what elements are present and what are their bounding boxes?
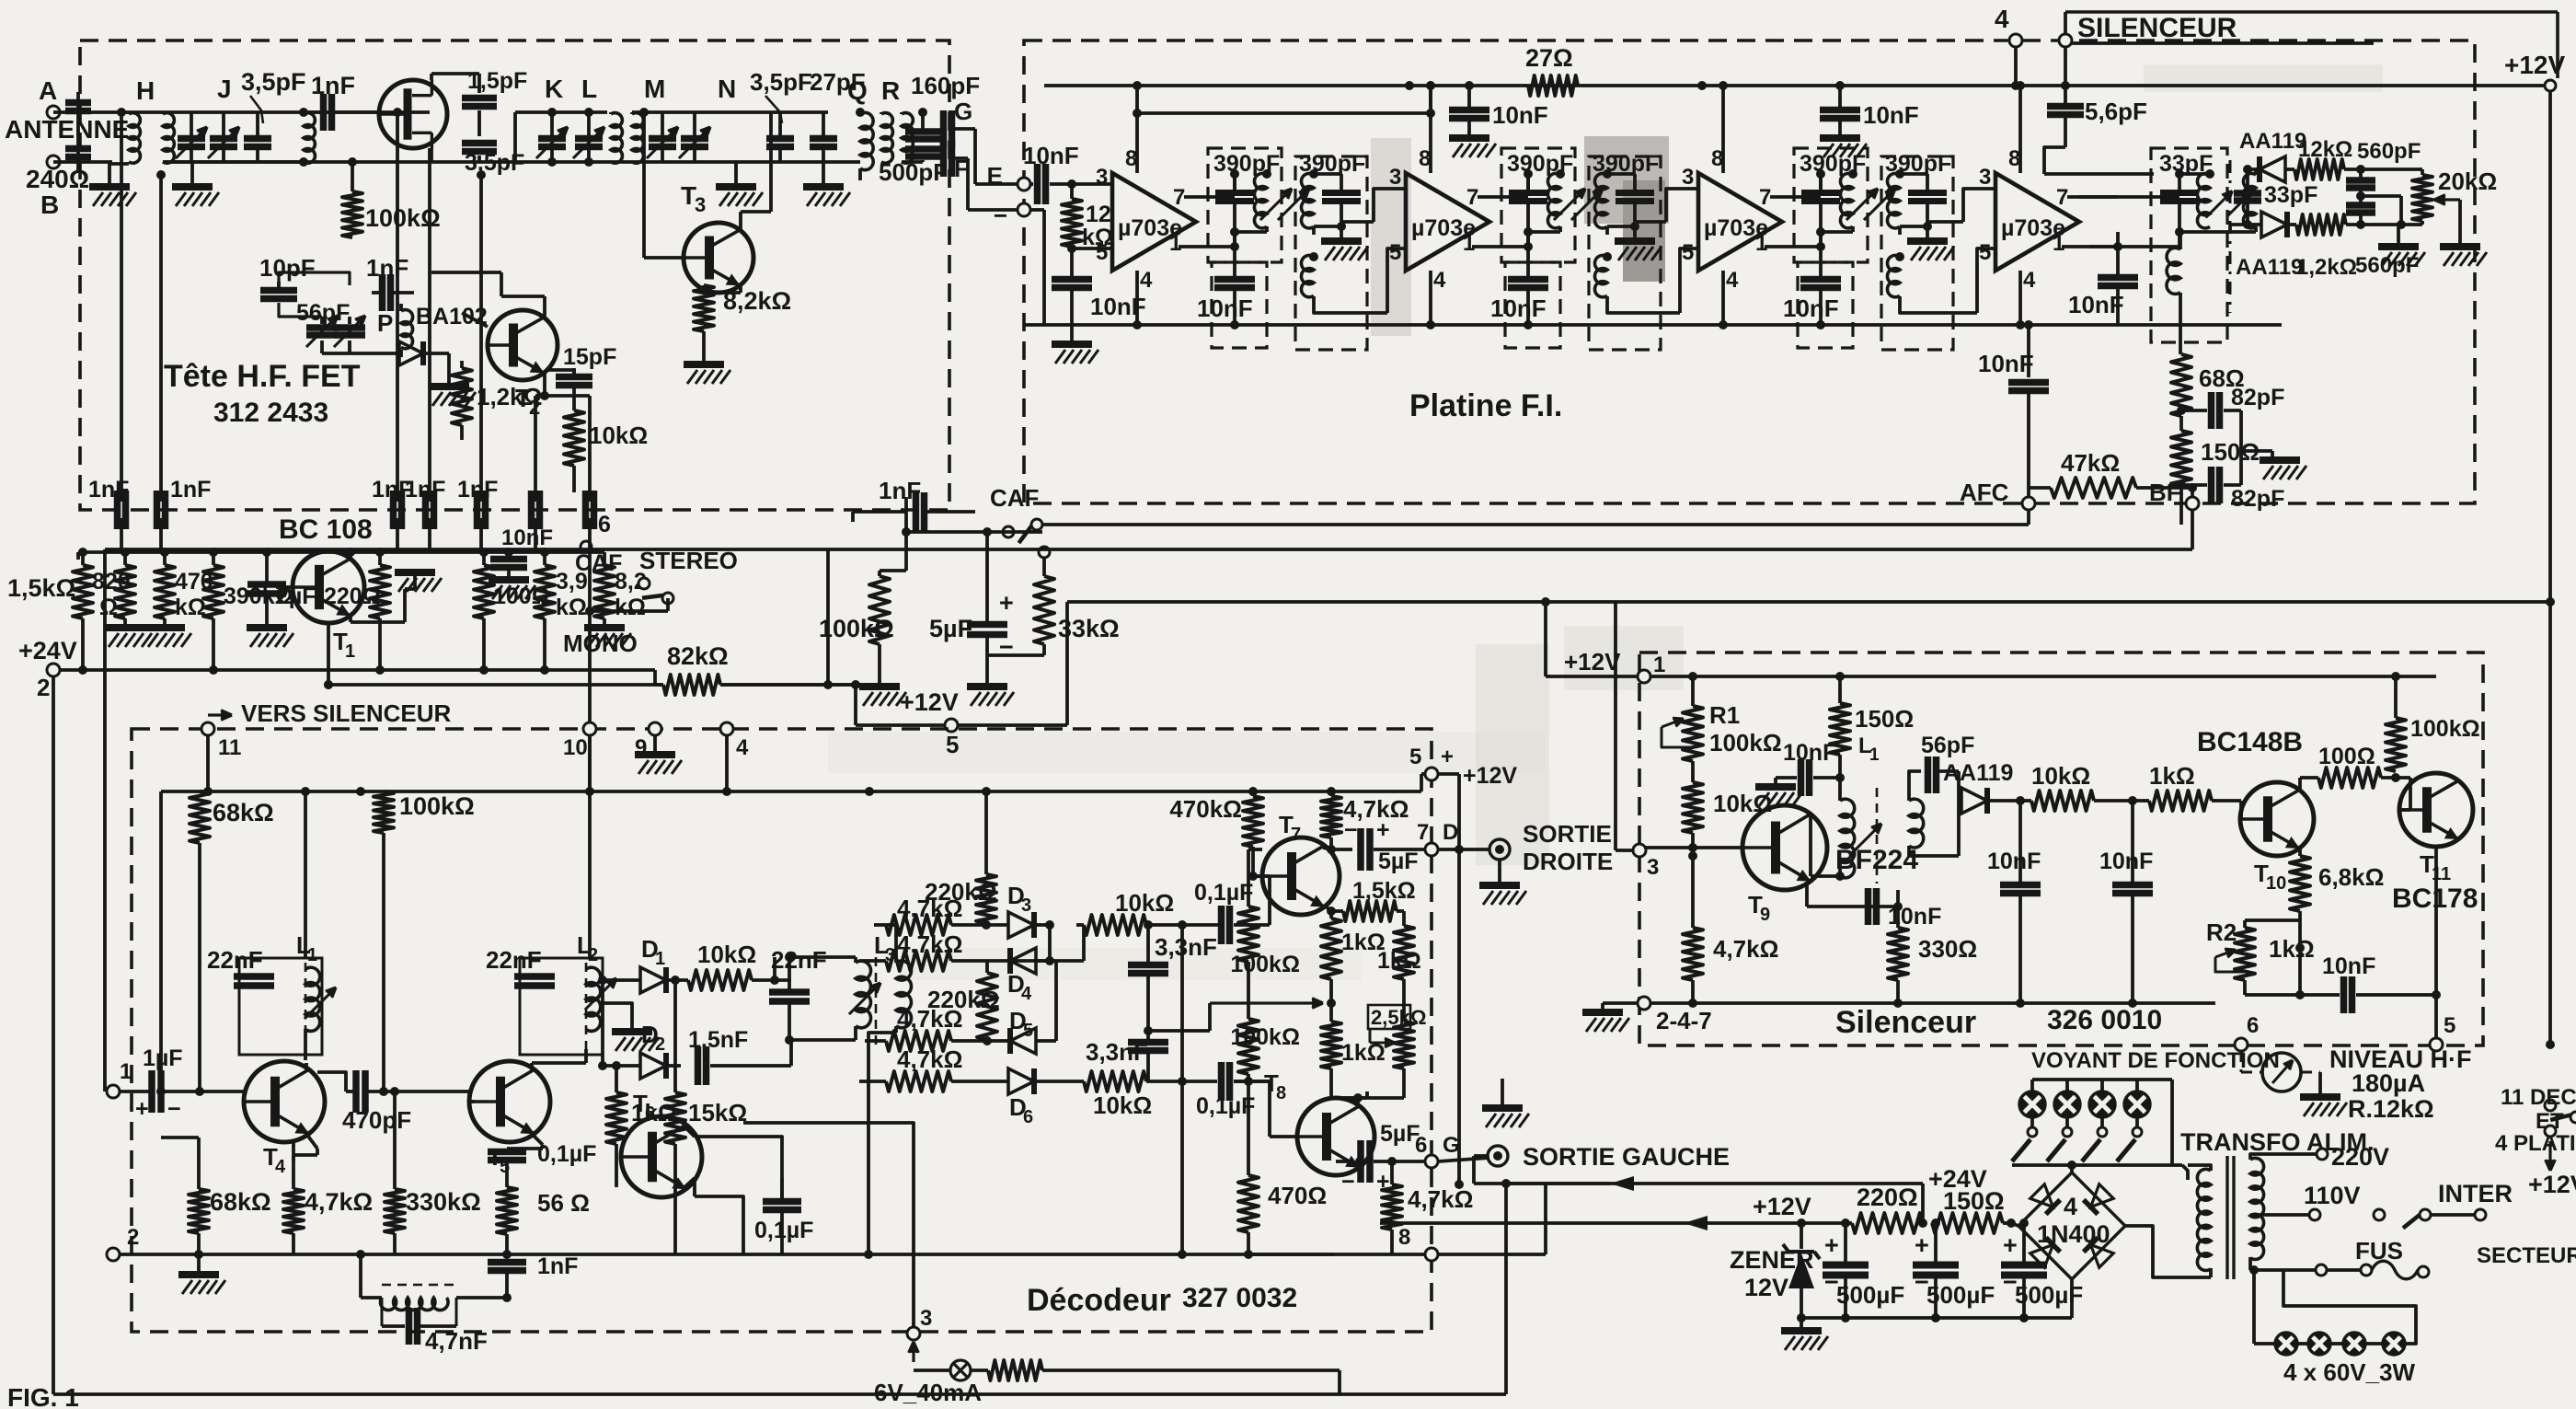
svg-text:3: 3 bbox=[1682, 165, 1694, 190]
wire to transformer bbox=[2182, 1165, 2188, 1180]
svg-text:2: 2 bbox=[655, 1034, 665, 1055]
svg-text:−: − bbox=[167, 1096, 181, 1122]
svg-text:470Ω: 470Ω bbox=[1268, 1182, 1327, 1209]
pin 6 G decoder bbox=[1425, 1155, 1438, 1168]
ground 82pF bbox=[2271, 451, 2274, 458]
decoder top rail bbox=[161, 790, 1421, 793]
resistor 100k upper pot chain bbox=[1238, 907, 1259, 962]
svg-text:6: 6 bbox=[1415, 1133, 1427, 1158]
wire T3 emitter bbox=[739, 285, 742, 293]
resistor 4,7k T4 bbox=[283, 1189, 304, 1233]
wiper arrow bbox=[1210, 1001, 1323, 1004]
supply rail corner +24V bbox=[1921, 1184, 1925, 1223]
svg-text:4: 4 bbox=[736, 735, 749, 760]
wire T3 collector bbox=[739, 212, 742, 230]
wire secondary to next stage pin5 bbox=[1607, 296, 1680, 313]
svg-text:kΩ: kΩ bbox=[175, 595, 206, 620]
svg-text:1: 1 bbox=[1169, 231, 1181, 256]
capacitor 10nF stage1 bypass bbox=[1052, 276, 1092, 283]
detector IF can dashed bbox=[2151, 148, 2227, 342]
capacitor 10nF det1 bbox=[2000, 882, 2041, 889]
svg-text:100kΩ: 100kΩ bbox=[1709, 729, 1782, 756]
ground under 470k bbox=[144, 624, 185, 631]
wire can output to next stage input bbox=[1312, 226, 1316, 235]
capacitor 82pF upper bbox=[2181, 409, 2207, 412]
svg-text:10nF: 10nF bbox=[1863, 101, 1919, 129]
wire to sortie gauche jack bbox=[1438, 1158, 1489, 1161]
resistor 68k T4 bbox=[189, 1189, 209, 1233]
svg-text:BC148B: BC148B bbox=[2197, 727, 2303, 757]
svg-text:1: 1 bbox=[345, 641, 355, 662]
svg-text:5: 5 bbox=[946, 731, 959, 758]
T10 collector to 100ohm bbox=[2298, 778, 2302, 790]
lamp bottom rail bbox=[2012, 1163, 2172, 1167]
wire jack to rails bbox=[1474, 1154, 1488, 1158]
svg-text:+12V: +12V bbox=[900, 688, 959, 716]
supply bottom rail bbox=[1801, 1316, 2072, 1320]
resistor 68 ohm bbox=[2171, 354, 2191, 416]
T1 collector wire bbox=[349, 552, 352, 560]
resistor 33k bbox=[1034, 576, 1054, 644]
resistor 100k to T8 base bbox=[1247, 1074, 1250, 1081]
svg-text:10nF: 10nF bbox=[2099, 849, 2153, 874]
transformer L1 silenceur secondary bbox=[1909, 799, 1924, 848]
wire stage input bbox=[1666, 189, 1698, 222]
capacitor 10nF rail bypass 1 bbox=[1467, 86, 1471, 109]
wire stage pin5 feedback bbox=[1387, 248, 1406, 313]
capacitor 390pF B bbox=[1908, 190, 1947, 196]
svg-text:+12V: +12V bbox=[1564, 648, 1621, 676]
FET drain wire to 1,5pF bbox=[430, 74, 433, 80]
svg-text:82pF: 82pF bbox=[2231, 486, 2284, 512]
capacitor 1nF feedthrough bbox=[474, 491, 481, 529]
svg-text:4,7kΩ: 4,7kΩ bbox=[897, 1045, 962, 1073]
transformer secondary winding bbox=[2250, 1158, 2264, 1259]
svg-text:0,1µF: 0,1µF bbox=[1196, 1093, 1255, 1119]
FI ground rail bbox=[1024, 323, 2282, 327]
svg-text:220Ω: 220Ω bbox=[1857, 1184, 1918, 1211]
svg-text:10nF: 10nF bbox=[1023, 142, 1079, 169]
FET source wire bbox=[430, 148, 433, 162]
svg-text:327 0032: 327 0032 bbox=[1182, 1283, 1297, 1313]
capacitor 1nF feedthrough bbox=[390, 491, 397, 529]
svg-text:Silenceur: Silenceur bbox=[1835, 1005, 1976, 1040]
pin 1 silenceur bbox=[1638, 670, 1650, 683]
wire AFC to CAF switch bbox=[2027, 510, 2030, 525]
svg-text:1: 1 bbox=[120, 1059, 132, 1084]
wire can output to next stage input bbox=[1605, 226, 1609, 235]
svg-text:4 x 60V_3W: 4 x 60V_3W bbox=[2283, 1358, 2416, 1386]
switch lever 3 bbox=[2082, 1139, 2100, 1161]
variable capacitor J2 bbox=[222, 112, 225, 136]
variable capacitor M1 bbox=[661, 112, 664, 136]
svg-text:K: K bbox=[545, 75, 563, 103]
svg-text:3: 3 bbox=[695, 193, 706, 216]
svg-text:3,5pF: 3,5pF bbox=[241, 68, 306, 96]
T8 lower rail bbox=[1248, 1253, 1392, 1256]
oscillator coil small bbox=[401, 310, 413, 349]
ground pot bbox=[2440, 243, 2480, 250]
svg-text:100kΩ: 100kΩ bbox=[2410, 716, 2480, 742]
wire pin7 top link bbox=[1526, 174, 1530, 192]
op-amp u703e stage 3 bbox=[1698, 173, 1782, 271]
SILENCEUR tag top bbox=[2059, 34, 2072, 47]
capacitor 560pF lower bbox=[2359, 189, 2363, 203]
svg-text:L: L bbox=[581, 75, 597, 103]
wire MONO line down to decoder bbox=[588, 529, 592, 791]
junction rail bbox=[1405, 81, 1414, 90]
T8 collector to rail bbox=[1356, 1098, 1360, 1108]
svg-text:D: D bbox=[1443, 820, 1458, 845]
capacitor 470pF bbox=[352, 1070, 360, 1113]
T2 collector wire bbox=[543, 296, 546, 318]
svg-text:5: 5 bbox=[1409, 745, 1421, 769]
secondary taps bbox=[2250, 1154, 2318, 1160]
wire minus to ground rail bbox=[1030, 208, 1044, 212]
svg-text:4: 4 bbox=[1995, 5, 2009, 33]
svg-text:6: 6 bbox=[598, 512, 611, 537]
lamp 60V bbox=[2383, 1333, 2405, 1355]
svg-text:2: 2 bbox=[588, 945, 598, 965]
wire top bus tuner row bbox=[129, 110, 430, 114]
pin 1 decoder bbox=[107, 1085, 120, 1098]
wire pin8 to right bbox=[1438, 1253, 1546, 1256]
svg-text:P: P bbox=[377, 309, 393, 337]
bridge bottom out bbox=[2070, 1279, 2074, 1318]
svg-text:+: + bbox=[1915, 1231, 1929, 1259]
capacitor 10nF det2 bbox=[2112, 882, 2153, 889]
svg-text:SORTIE GAUCHE: SORTIE GAUCHE bbox=[1523, 1143, 1730, 1171]
svg-text:7: 7 bbox=[2056, 185, 2068, 210]
svg-text:3: 3 bbox=[920, 1306, 932, 1331]
T7 emitter node bbox=[1325, 906, 1331, 911]
resistor 100k T11 bbox=[2386, 718, 2406, 771]
detector tertiary coil bbox=[2167, 248, 2180, 294]
wire T4 collector to 470pF bbox=[305, 1063, 308, 1070]
mid node wire bbox=[2356, 191, 2365, 201]
tank L1 box bbox=[239, 958, 322, 1055]
svg-text:5: 5 bbox=[1389, 240, 1401, 265]
T2 emitter wire bbox=[543, 373, 546, 396]
svg-text:312 2433: 312 2433 bbox=[213, 398, 328, 428]
svg-text:R1: R1 bbox=[1709, 701, 1740, 729]
resistor 220 bbox=[370, 565, 390, 618]
T7 collector junction bbox=[1327, 845, 1336, 854]
node B pin bbox=[47, 156, 60, 168]
resistor 100k oscillator bias bbox=[304, 160, 379, 164]
svg-text:0,1µF: 0,1µF bbox=[1194, 880, 1253, 906]
wire BF down bbox=[2191, 510, 2194, 549]
svg-text:1: 1 bbox=[2053, 231, 2064, 256]
wire bridge top to lamp rail bbox=[2070, 1172, 2074, 1174]
svg-text:+24V: +24V bbox=[18, 637, 77, 664]
lamp voyant 2 bbox=[2065, 1080, 2069, 1092]
svg-text:B: B bbox=[40, 191, 59, 219]
switch lever 2 bbox=[2047, 1139, 2065, 1161]
svg-text:N: N bbox=[718, 75, 736, 103]
resistor 8,2k T3 emitter bbox=[702, 285, 706, 293]
svg-text:9: 9 bbox=[1760, 905, 1770, 925]
bridge diode marks bbox=[2030, 1184, 2061, 1215]
pot 2,5k box bbox=[1368, 1005, 1410, 1029]
switch decodeur feed bbox=[2546, 1040, 2555, 1049]
svg-text:1nF: 1nF bbox=[457, 477, 498, 502]
svg-text:1nF: 1nF bbox=[170, 477, 211, 502]
svg-text:220V: 220V bbox=[2331, 1143, 2389, 1171]
svg-text:6V_40mA: 6V_40mA bbox=[874, 1379, 982, 1406]
svg-text:82kΩ: 82kΩ bbox=[667, 642, 729, 670]
node line y600 bbox=[78, 550, 430, 554]
wire can output to next stage input bbox=[1898, 226, 1902, 235]
svg-text:68kΩ: 68kΩ bbox=[213, 799, 274, 826]
wire 82pF join bbox=[2239, 410, 2243, 485]
capacitor 5uF gauche bbox=[1336, 1160, 1352, 1163]
svg-text:100kΩ: 100kΩ bbox=[1230, 1024, 1300, 1050]
svg-text:6: 6 bbox=[645, 1103, 655, 1124]
svg-text:+: + bbox=[135, 1096, 149, 1122]
svg-text:10nF: 10nF bbox=[501, 525, 553, 550]
svg-text:4: 4 bbox=[1726, 268, 1739, 293]
svg-text:10kΩ: 10kΩ bbox=[589, 422, 648, 449]
svg-text:+12V: +12V bbox=[2504, 51, 2565, 79]
wire pin7 to tank bbox=[2067, 195, 2118, 199]
capacitor 500uF 2 bbox=[1913, 1262, 1959, 1269]
svg-text:10: 10 bbox=[2266, 873, 2286, 894]
svg-text:4: 4 bbox=[2023, 268, 2036, 293]
svg-text:1kΩ: 1kΩ bbox=[1341, 1040, 1386, 1066]
IF transformer can B dashed bbox=[1589, 156, 1661, 350]
svg-text:11: 11 bbox=[218, 735, 241, 760]
svg-text:10nF: 10nF bbox=[1888, 904, 1941, 930]
capacitor 560pF upper bbox=[2359, 169, 2363, 178]
T8 emitter output bbox=[1358, 1161, 1362, 1166]
can extension dashed bbox=[1798, 262, 1853, 348]
resistor 68k pin11 bbox=[190, 791, 210, 843]
silenceur top rail bbox=[1650, 675, 2436, 678]
svg-text:Décodeur: Décodeur bbox=[1027, 1283, 1171, 1318]
svg-text:3,9: 3,9 bbox=[556, 569, 588, 595]
transformer core bbox=[2225, 1156, 2228, 1279]
svg-text:100kΩ: 100kΩ bbox=[1230, 952, 1300, 977]
wire +12V to decoder right bbox=[1065, 602, 1069, 725]
svg-text:1,2kΩ: 1,2kΩ bbox=[477, 383, 542, 410]
capacitor 390pF B bbox=[1322, 190, 1361, 196]
transformer L1 silenceur primary bbox=[1840, 799, 1855, 878]
svg-text:22nF: 22nF bbox=[771, 946, 827, 974]
wire pin4 to ground rail bbox=[1721, 271, 1725, 325]
ground L2 bbox=[601, 1003, 632, 1030]
FET transistor T bbox=[379, 80, 447, 148]
svg-text:7: 7 bbox=[1291, 825, 1301, 845]
svg-text:7: 7 bbox=[1417, 820, 1429, 845]
svg-text:5,6pF: 5,6pF bbox=[2085, 98, 2147, 125]
capacitor 33pF mid bbox=[2234, 190, 2261, 197]
resistor 1k second bbox=[1394, 926, 1414, 979]
capacitor 0,1uF T6 bbox=[763, 1198, 801, 1206]
ground T4 bbox=[178, 1271, 219, 1278]
label VERS SILENCEUR bbox=[208, 713, 232, 716]
capacitor 1nF coupling to FET bbox=[304, 110, 320, 114]
IF coil B bbox=[1594, 173, 1607, 227]
block Tete H.F. FET dashed box bbox=[80, 40, 949, 510]
svg-text:68kΩ: 68kΩ bbox=[210, 1188, 271, 1216]
pin 3 silenceur bbox=[1633, 844, 1646, 857]
resistor 390k bbox=[203, 565, 224, 618]
svg-text:11 DECODEUR: 11 DECODEUR bbox=[2501, 1085, 2576, 1110]
wire L3 input bbox=[789, 1040, 793, 1066]
resistor 56 ohm bbox=[505, 1161, 509, 1187]
wire pin8 to +12V rail bbox=[1721, 86, 1725, 173]
svg-text:22nF: 22nF bbox=[486, 946, 542, 974]
svg-text:1kΩ: 1kΩ bbox=[1377, 948, 1421, 974]
lamp voyant 3 bbox=[2100, 1080, 2104, 1092]
svg-text:4: 4 bbox=[2064, 1193, 2077, 1220]
oscillator input coil bbox=[304, 113, 315, 164]
IF coil B bbox=[1301, 173, 1314, 227]
capacitor 82pF lower bbox=[2181, 483, 2207, 487]
capacitor feedthrough 6 bbox=[528, 491, 535, 529]
mid wire to pots bbox=[1148, 1029, 1210, 1033]
svg-text:AA119: AA119 bbox=[2239, 129, 2306, 154]
svg-text:12: 12 bbox=[1086, 202, 1111, 227]
svg-text:MONO: MONO bbox=[563, 629, 638, 657]
wire pin4 to ground rail bbox=[1429, 271, 1432, 325]
wire L1 to T4 bbox=[304, 1055, 307, 1060]
capacitor 10nF AFC bbox=[2027, 325, 2030, 377]
variable capacitor P bbox=[334, 324, 365, 331]
wire bottom bus segment bbox=[163, 160, 304, 164]
svg-text:kΩ: kΩ bbox=[615, 595, 646, 620]
svg-text:Q: Q bbox=[847, 76, 868, 105]
lamp 60V bbox=[2343, 1333, 2365, 1355]
transistor T9 BF224 bbox=[1742, 805, 1827, 890]
transistor T3 bbox=[684, 223, 753, 293]
L3 primary coil bbox=[856, 961, 871, 1028]
vertical wires to feedthrough row bbox=[120, 112, 123, 502]
can extension dashed bbox=[1505, 262, 1560, 348]
pin CAF bbox=[581, 541, 592, 552]
resistor 100k lower pot chain bbox=[1238, 1019, 1259, 1074]
decoder rail 2 bbox=[113, 1253, 1334, 1256]
wire stage pin5 feedback bbox=[1680, 248, 1698, 313]
variable capacitor J1 bbox=[190, 112, 193, 136]
transformer primary winding bbox=[2197, 1169, 2211, 1270]
svg-text:1µF: 1µF bbox=[143, 1045, 183, 1071]
svg-text:FIG. 1: FIG. 1 bbox=[7, 1383, 79, 1409]
svg-text:1kΩ: 1kΩ bbox=[2269, 935, 2315, 963]
pin 11 decoder bbox=[201, 722, 214, 735]
svg-text:10kΩ: 10kΩ bbox=[2031, 762, 2090, 790]
capacitor 10nF rail bypass 2 bbox=[1838, 86, 1842, 109]
svg-text:8,2kΩ: 8,2kΩ bbox=[723, 287, 791, 315]
resistor 6,8k T10 bbox=[2290, 856, 2310, 911]
jack sortie gauche bbox=[1488, 1146, 1508, 1166]
svg-text:1kΩ: 1kΩ bbox=[2149, 762, 2195, 790]
svg-text:SECTEUR: SECTEUR bbox=[2477, 1243, 2576, 1268]
pin 3 decoder bbox=[907, 1327, 920, 1340]
T5 emitter chain 0,1uF bbox=[532, 1134, 543, 1145]
svg-text:A: A bbox=[39, 76, 57, 105]
svg-text:56pF: 56pF bbox=[1921, 733, 1974, 758]
wire from T1 down bbox=[327, 623, 330, 685]
IF secondary coil bbox=[1301, 255, 1314, 296]
capacitor 390pF bbox=[1215, 190, 1254, 196]
svg-text:7: 7 bbox=[1759, 185, 1771, 210]
capacitor 0,1uF upper bbox=[1218, 906, 1225, 944]
IF coil primary bbox=[1819, 174, 1823, 192]
pot wiper bbox=[2434, 198, 2460, 201]
capacitor 1nF feedthrough bbox=[114, 491, 121, 529]
svg-text:2: 2 bbox=[37, 674, 50, 701]
switch lever 1 bbox=[2012, 1139, 2030, 1161]
svg-text:M: M bbox=[644, 75, 665, 103]
wire pin7 top link bbox=[1233, 174, 1236, 192]
resistor 15k bbox=[665, 1092, 685, 1144]
svg-text:5µF: 5µF bbox=[929, 615, 972, 642]
wire E from tuner bbox=[975, 182, 1018, 186]
svg-text:1nF: 1nF bbox=[537, 1253, 578, 1279]
detector secondary coil upper bbox=[2243, 173, 2256, 227]
svg-text:4 PLATINE F.: 4 PLATINE F. bbox=[2495, 1131, 2576, 1156]
svg-text:326 0010: 326 0010 bbox=[2047, 1005, 2162, 1035]
wire R2 to cap bbox=[2298, 948, 2302, 995]
capacitor 3,5pF neutralizing bbox=[462, 140, 497, 147]
capacitor 10nF T9 bbox=[1805, 882, 1809, 907]
svg-text:10kΩ: 10kΩ bbox=[1115, 889, 1174, 917]
svg-text:ANTENNE: ANTENNE bbox=[5, 115, 129, 144]
svg-text:DROITE: DROITE bbox=[1523, 848, 1613, 875]
capacitor 500uF 3 bbox=[2001, 1262, 2047, 1269]
svg-text:4: 4 bbox=[1433, 268, 1446, 293]
IF coil primary bbox=[1233, 174, 1236, 192]
svg-text:Tête H.F. FET: Tête H.F. FET bbox=[164, 359, 361, 394]
op-amp u703e stage 2 bbox=[1406, 173, 1489, 271]
resistor 470k T7 bbox=[1243, 796, 1263, 847]
svg-text:0,1µF: 0,1µF bbox=[754, 1218, 813, 1243]
resistor lamp bbox=[988, 1360, 1042, 1380]
svg-text:10nF: 10nF bbox=[1490, 295, 1547, 322]
svg-text:+: + bbox=[1824, 1231, 1839, 1259]
capacitor 10nF under can bbox=[1233, 247, 1236, 279]
ground stage1 bbox=[1070, 325, 1074, 342]
pin 6 silenceur bbox=[2235, 1038, 2248, 1051]
wire 100k node bbox=[904, 497, 908, 571]
svg-text:R.12kΩ: R.12kΩ bbox=[2348, 1095, 2434, 1123]
pin 4 decoder bbox=[720, 722, 733, 735]
wires to E pin bbox=[952, 127, 975, 131]
resistor 330k bbox=[385, 1189, 405, 1233]
block Decodeur dashed box bbox=[132, 729, 1432, 1332]
resistor 10k R1 bbox=[1683, 782, 1703, 833]
svg-text:VOYANT DE FONCTION: VOYANT DE FONCTION bbox=[2031, 1048, 2280, 1073]
lamp 60V bbox=[2308, 1333, 2330, 1355]
wire pin4 to ground rail bbox=[2018, 271, 2022, 325]
wire stage1 pin8 top link bbox=[1137, 111, 1431, 115]
wire T3 base bbox=[644, 256, 682, 260]
svg-text:AA119: AA119 bbox=[1943, 760, 2013, 786]
capacitor 390pF bbox=[1509, 190, 1547, 196]
ground under 100k bbox=[859, 683, 900, 690]
wire stage pin5 feedback bbox=[1977, 248, 1995, 313]
bridge output minus wire bbox=[2011, 1223, 2018, 1226]
svg-text:5: 5 bbox=[1096, 240, 1108, 265]
antenna series capacitors bbox=[53, 110, 78, 114]
T4 emitter junction bbox=[306, 1134, 317, 1149]
svg-text:10kΩ: 10kΩ bbox=[1093, 1091, 1152, 1119]
pot 2,5k resistor bbox=[1394, 1022, 1414, 1068]
can extension dashed bbox=[1212, 262, 1267, 348]
capacitor 390pF B bbox=[1616, 190, 1654, 196]
